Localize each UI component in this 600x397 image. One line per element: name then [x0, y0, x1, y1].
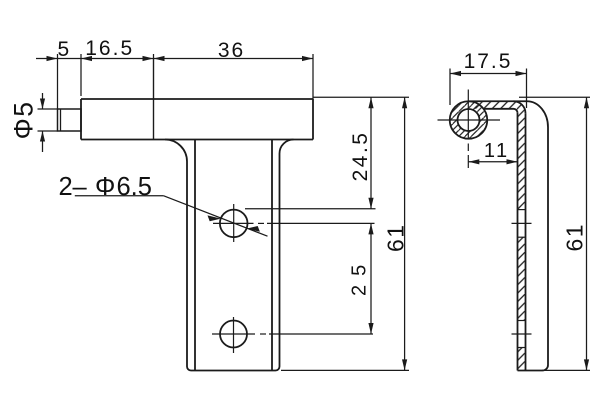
hole 1 centerline extension to dim: [267, 222, 375, 224]
arrow at x81 pointing left: [81, 56, 92, 61]
leaf bottom edge: [191, 370, 276, 372]
arrow down: [584, 359, 589, 370]
knuckle outer circle: [450, 101, 488, 139]
dimension 61 (side): [519, 97, 590, 370]
knuckle bar top edge: [81, 98, 313, 100]
hole gap lines in band: [512, 210, 532, 348]
leaf outer left fillet + edge: [165, 140, 191, 371]
top dimension line: [36, 58, 313, 60]
pin (hinge pin end): [58, 109, 82, 131]
hole2 gap bottom: [518, 347, 526, 349]
knuckle ring hatch: [450, 101, 488, 138]
svg-text:2–Φ6.5: 2–Φ6.5: [59, 173, 152, 201]
extension line hole1 top: [245, 208, 376, 210]
outer silhouette curve: [527, 101, 548, 370]
leaf inner left line: [194, 140, 196, 371]
knuckle centerlines: [438, 90, 501, 169]
bottom extension line (front): [281, 369, 409, 371]
dim line 24.5: [370, 97, 372, 209]
arrow at x57.5 pointing right: [47, 56, 58, 61]
hole 2: [220, 321, 247, 348]
hole 1 vertical centerline: [233, 204, 235, 242]
dim line: [450, 73, 527, 75]
extension line pin left: [57, 54, 59, 109]
24.5 arrow up: [368, 97, 373, 108]
bottom ext (side): [542, 369, 590, 371]
arrow right pointing right: [507, 159, 518, 164]
knuckle bar right edge: [312, 99, 314, 140]
svg-text:36: 36: [218, 39, 245, 62]
ext right: [526, 69, 528, 109]
vertical centerline dash 1: [467, 144, 469, 152]
hole 1: [220, 210, 248, 238]
dimension: phi5 (pin diameter): [38, 93, 58, 152]
pin end cap line: [60, 109, 62, 131]
arrow left pointing left: [468, 159, 479, 164]
band mid hatch: [518, 237, 526, 320]
dimension 11: [468, 161, 517, 163]
hole 1 horizontal centerline: [213, 222, 254, 224]
top extension line (front): [313, 96, 409, 98]
extension line 36 start: [153, 54, 155, 59]
svg-text:Φ5: Φ5: [9, 101, 39, 140]
hole 2 vertical centerline: [233, 317, 235, 353]
dim line above: [42, 93, 44, 109]
hole2 center tick: [512, 333, 532, 335]
strip top edge: [469, 100, 528, 102]
hole 2 horizontal centerline: [212, 333, 255, 335]
band right edge: [525, 113, 527, 370]
leader diagonal: [163, 196, 267, 237]
extension line bar left: [80, 54, 82, 96]
arrow up at pin bottom: [40, 131, 45, 142]
hole2 gap top: [518, 320, 526, 322]
band left edge: [517, 113, 519, 371]
svg-text:24.5: 24.5: [349, 131, 372, 182]
24.5 arrow down: [368, 198, 373, 209]
top ext (side): [519, 96, 590, 98]
ext left: [449, 69, 451, 106]
dim line 61 front: [404, 97, 406, 370]
dim line 25: [370, 223, 372, 334]
leaf outer right fillet + edge: [276, 140, 294, 371]
arrow left: [450, 71, 461, 76]
inner bend arc: [514, 109, 518, 113]
svg-text:16.5: 16.5: [85, 37, 134, 60]
61 front arrow down: [402, 359, 407, 370]
svg-text:61: 61: [382, 223, 408, 252]
strip bottom edge: [484, 108, 514, 110]
25 arrow down: [368, 323, 373, 334]
leader arrow upper (pointing to hole, down-right): [208, 215, 221, 221]
arrow at x153.5 pointing left: [154, 56, 165, 61]
knuckle inner circle: [458, 109, 480, 131]
dimension: 24.5 / 25 / 61 (front): [245, 97, 409, 370]
svg-text:11: 11: [484, 140, 510, 162]
extension line bar right (above): [312, 54, 314, 99]
horizontal centerline: [438, 119, 501, 121]
dimension: top chain 5 / 16.5 / 36: [36, 54, 313, 109]
hatched section fill: [450, 101, 526, 370]
hole1 gap bottom: [518, 236, 526, 238]
leader arrow lower (pointing to hole, up-left): [247, 226, 260, 232]
svg-text:5: 5: [58, 38, 72, 61]
hole 2 centerline dash: [260, 333, 266, 335]
knuckle bar left edge: [80, 99, 82, 140]
ext line pin bottom: [38, 130, 58, 132]
side bottom edge: [518, 370, 543, 372]
arrow right: [516, 71, 527, 76]
dim line: [586, 97, 588, 370]
bar divider line: [153, 59, 155, 140]
band bottom hatch: [518, 348, 526, 371]
arrow down at pin top: [40, 99, 45, 110]
vertical centerline solid: [467, 90, 469, 140]
arrow at x153.5 pointing right: [143, 56, 154, 61]
arrow at x313 pointing right: [302, 56, 313, 61]
hole 2 centerline extension to dim: [269, 333, 373, 335]
hole1 gap top: [518, 209, 526, 211]
svg-text:17.5: 17.5: [464, 50, 513, 73]
dim line: [468, 161, 517, 163]
leaf inner right line: [271, 140, 273, 371]
svg-text:25: 25: [348, 256, 370, 296]
ext line pin top: [38, 108, 58, 110]
hole 1 centerline dash: [258, 222, 264, 224]
25 arrow up: [368, 223, 373, 234]
leader 2-phi6.5: [75, 196, 268, 237]
hole1 center tick: [512, 222, 532, 224]
centerlines front view: [212, 204, 375, 353]
svg-text:61: 61: [562, 223, 588, 252]
knuckle bar bottom edge: [81, 139, 313, 141]
strip + band top hatch: [473, 101, 526, 209]
outer bend arc: [514, 101, 526, 113]
dim line below: [42, 131, 44, 152]
arrow up: [584, 97, 589, 108]
vertical centerline dash 2: [467, 155, 469, 168]
dimension 17.5: [450, 69, 527, 109]
leader underline: [75, 195, 164, 197]
61 front arrow up: [402, 97, 407, 108]
